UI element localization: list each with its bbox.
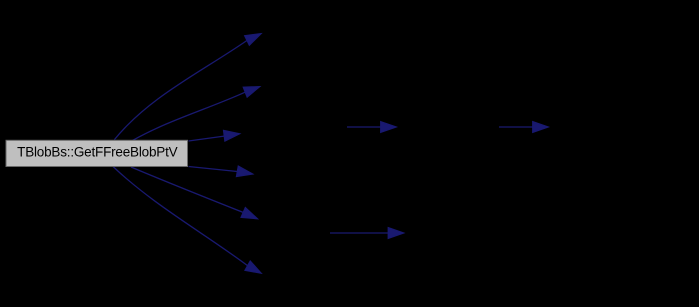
- edge 4: GetFFreeBlobPtV -> node D: [189, 166, 254, 177]
- edge 2: GetFFreeBlobPtV -> node B: [132, 87, 260, 141]
- node TBlobBs::GetFFreeBlobPtV (current node, grey): [6, 140, 188, 166]
- svg-text:TBlobBs::GetFFreeBlobPtV: TBlobBs::GetFFreeBlobPtV: [17, 145, 177, 160]
- edge 9: node E -> node I (lower horizontal arrow): [330, 228, 404, 239]
- edge 6: GetFFreeBlobPtV -> node F (bottom): [113, 167, 262, 274]
- edge 1: GetFFreeBlobPtV -> node A (top): [114, 34, 261, 140]
- edge 7: node B -> node G (middle horizontal arrow): [347, 122, 397, 133]
- edge 5: GetFFreeBlobPtV -> node E: [131, 167, 258, 219]
- edge 8: node G -> node H (right horizontal arrow): [499, 122, 549, 133]
- edge 3: GetFFreeBlobPtV -> node C: [189, 130, 241, 141]
